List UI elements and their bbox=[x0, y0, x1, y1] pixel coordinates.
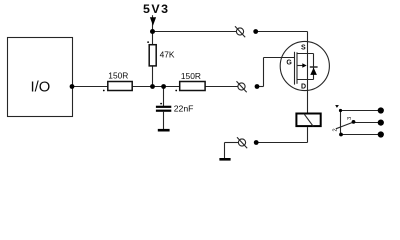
svg-text:22nF: 22nF bbox=[174, 104, 194, 114]
svg-text:47K: 47K bbox=[160, 50, 175, 60]
svg-text:150R: 150R bbox=[181, 71, 201, 81]
svg-text:S: S bbox=[301, 44, 306, 51]
svg-text:G: G bbox=[286, 60, 292, 67]
svg-text:3: 3 bbox=[347, 117, 353, 120]
svg-text:2: 2 bbox=[332, 128, 338, 131]
svg-text:5V3: 5V3 bbox=[143, 2, 170, 16]
svg-text:I/O: I/O bbox=[31, 79, 51, 95]
svg-text:D: D bbox=[301, 84, 306, 91]
svg-text:150R: 150R bbox=[108, 71, 128, 81]
